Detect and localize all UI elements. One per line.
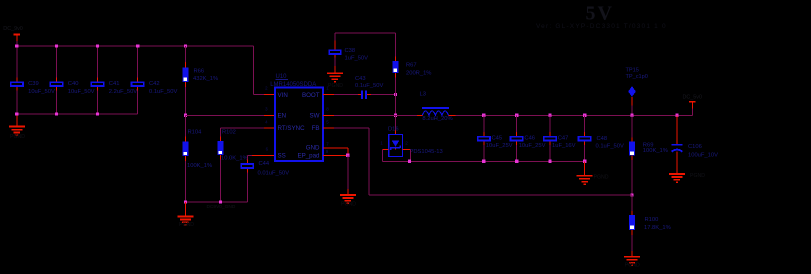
svg-text:DC_9v0: DC_9v0 [3,26,22,32]
svg-text:2: 2 [405,140,408,145]
svg-text:PGND: PGND [10,134,25,140]
svg-text:C40: C40 [68,81,79,87]
svg-text:PGND: PGND [625,262,640,268]
svg-text:FB: FB [312,125,320,132]
svg-text:C45: C45 [492,135,503,141]
svg-text:100uF_10V: 100uF_10V [688,152,718,158]
svg-text:100K_1%: 100K_1% [643,148,668,154]
svg-text:1uF_16V: 1uF_16V [552,143,576,149]
svg-text:R100: R100 [645,217,659,223]
svg-text:C42: C42 [149,81,160,87]
svg-text:PGND: PGND [341,202,356,208]
svg-text:C106: C106 [688,144,702,150]
svg-text:GND: GND [306,145,320,152]
svg-text:0.1uF_50V: 0.1uF_50V [355,83,383,89]
svg-text:1: 1 [380,140,383,145]
svg-text:C47: C47 [558,135,569,141]
svg-text:C43: C43 [355,76,366,82]
svg-text:2.2uF_50V: 2.2uF_50V [109,89,137,95]
svg-text:200R_1%: 200R_1% [406,70,431,76]
svg-text:R66: R66 [194,69,205,75]
svg-text:0.01uF_50V: 0.01uF_50V [258,171,290,177]
svg-text:VIN: VIN [278,92,288,99]
svg-text:BOOT: BOOT [302,92,320,99]
svg-text:5V: 5V [586,3,614,25]
svg-text:C39: C39 [28,81,39,87]
svg-text:RT/SYNC: RT/SYNC [278,125,306,132]
svg-text:R67: R67 [406,62,417,68]
svg-text:LMR14050SDDA: LMR14050SDDA [270,82,316,88]
svg-text:17.8K_1%: 17.8K_1% [644,225,671,231]
svg-text:432K_1%: 432K_1% [193,76,218,82]
svg-text:EP_pad: EP_pad [297,153,320,160]
svg-text:PGND: PGND [328,83,343,89]
svg-text:EN: EN [278,112,287,119]
svg-text:10uF_25V: 10uF_25V [486,143,513,149]
svg-text:DC_5v0: DC_5v0 [683,94,702,100]
svg-text:8.2uH_20%: 8.2uH_20% [422,116,452,122]
svg-text:SS: SS [278,153,286,160]
svg-text:TP_c1p0: TP_c1p0 [626,74,648,80]
svg-text:C38: C38 [345,48,356,54]
svg-text:L3: L3 [420,91,426,97]
svg-text:R102: R102 [222,129,236,135]
svg-text:PDS1045-13: PDS1045-13 [410,149,443,155]
svg-text:10uF_50V: 10uF_50V [68,89,95,95]
svg-text:0.1uF_50V: 0.1uF_50V [149,89,177,95]
svg-text:DC9V0_GND: DC9V0_GND [207,204,236,210]
svg-text:TP15: TP15 [626,67,639,73]
svg-text:Ver: GL-XYP-DC3301 T/0301 1 0: Ver: GL-XYP-DC3301 T/0301 1 0 [536,23,667,30]
svg-text:0.1uF_50V: 0.1uF_50V [596,144,624,150]
svg-text:PGND: PGND [179,222,194,228]
svg-text:1uF_50V: 1uF_50V [345,55,369,61]
svg-text:100K_1%: 100K_1% [187,163,212,169]
svg-text:PGND: PGND [690,173,705,179]
svg-text:SW: SW [310,112,320,119]
svg-text:R104: R104 [188,129,203,135]
svg-text:D16: D16 [388,126,399,132]
svg-text:10uF_25V: 10uF_25V [519,143,546,149]
svg-text:PGND: PGND [594,175,609,181]
svg-text:10uF_50V: 10uF_50V [28,89,55,95]
svg-text:C46: C46 [524,135,535,141]
svg-text:10.0K_1%: 10.0K_1% [221,155,248,161]
svg-text:C41: C41 [109,81,120,87]
svg-text:C44: C44 [259,161,270,167]
svg-text:C48: C48 [597,136,608,142]
